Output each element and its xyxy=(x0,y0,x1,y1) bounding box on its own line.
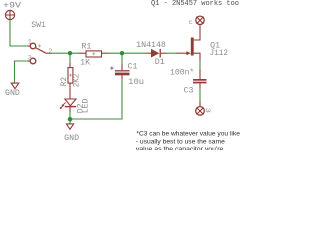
SW1 pin 2 stub xyxy=(46,52,52,54)
D2 cathode bar xyxy=(65,106,77,108)
svg-text:10u: 10u xyxy=(128,78,144,87)
svg-text:1K: 1K xyxy=(80,59,90,68)
junction node LED/C1/GND xyxy=(68,117,73,122)
svg-text:value as the capacitor you're: value as the capacitor you're xyxy=(136,146,224,150)
svg-text:R1: R1 xyxy=(81,42,91,51)
D1 anode stub xyxy=(146,52,151,54)
power supply symbol +9V xyxy=(5,10,14,19)
wire switch pin 2 to R1 xyxy=(52,52,79,54)
R2 origin cross xyxy=(69,74,72,77)
svg-text:3: 3 xyxy=(28,54,32,62)
svg-text:J112: J112 xyxy=(210,49,229,58)
C3 top plate xyxy=(193,79,207,81)
R1 body xyxy=(86,51,102,57)
C1 bottom plate xyxy=(115,73,130,76)
diode D1 1N4148 xyxy=(136,41,166,67)
svg-text:R2: R2 xyxy=(60,77,69,86)
wire C1 bottom to LED junction xyxy=(70,79,122,119)
wire +9V to switch pin 1 xyxy=(10,19,27,46)
wire C3 to connector pin 3 xyxy=(199,89,201,101)
R2 bottom pin stub to LED xyxy=(69,83,71,99)
C3 bottom pin stub xyxy=(199,83,201,88)
SW1 lever xyxy=(35,48,46,54)
Q1 channel bar xyxy=(191,38,194,56)
svg-text:100n*: 100n* xyxy=(170,68,194,78)
svg-text:LED: LED xyxy=(82,98,91,113)
wire R1 to D1 xyxy=(109,52,147,54)
svg-text:C1: C1 xyxy=(128,62,138,71)
SW1 pin 1 stub xyxy=(27,45,30,47)
svg-text:+9V: +9V xyxy=(3,2,21,11)
LED D2 xyxy=(60,98,91,113)
svg-text:*C3 can be whatever value you: *C3 can be whatever value you like xyxy=(136,131,240,138)
connector pin (drain output) xyxy=(196,16,204,24)
wire Q1 source to C3 xyxy=(199,61,201,69)
D2 cathode stub xyxy=(69,107,71,112)
Q1 gate line xyxy=(177,52,188,54)
R2 body xyxy=(68,68,73,84)
svg-text:3: 3 xyxy=(203,108,211,113)
junction node at R2 branch xyxy=(68,51,72,55)
C1 plus marker xyxy=(110,66,113,69)
SW1 pin 3 stub xyxy=(27,60,30,62)
svg-text:2K2: 2K2 xyxy=(73,74,82,88)
capacitor C3 100n xyxy=(170,68,207,96)
SW1 origin cross xyxy=(38,44,41,47)
svg-text:1N4148: 1N4148 xyxy=(136,41,166,50)
D2 emission arrow 1 xyxy=(62,102,65,105)
wire D1 to Q1 gate xyxy=(166,52,177,54)
connector pin 3 (sleeve) xyxy=(196,101,205,115)
resistor R1 xyxy=(79,42,109,67)
R1 right pin stub xyxy=(102,52,109,54)
C3 top pin stub xyxy=(199,69,201,79)
Q1 drain connection xyxy=(194,25,200,41)
R1 left pin stub xyxy=(79,52,86,54)
wire LED to ground junction xyxy=(69,113,71,120)
wire junction to GND2 xyxy=(69,119,71,124)
resistor R2 2K2 xyxy=(60,53,82,99)
Q1 gate arrowhead xyxy=(186,51,190,55)
wire switch pin 3 to ground xyxy=(15,61,28,83)
D2 triangle xyxy=(65,99,76,106)
svg-text:C3: C3 xyxy=(184,87,194,96)
C1 top pin stub xyxy=(121,64,123,70)
capacitor C1 10u polarized xyxy=(110,62,144,87)
D1 cathode bar xyxy=(159,49,161,58)
svg-text:GND: GND xyxy=(64,134,79,143)
transistor Q1 J112 JFET xyxy=(177,25,229,61)
svg-text:1: 1 xyxy=(28,39,32,47)
SW1 pin 1 contact circle xyxy=(30,43,36,49)
ground GND2 xyxy=(66,124,73,129)
svg-text:SW1: SW1 xyxy=(31,21,46,30)
D2 emission arrow 2 xyxy=(61,105,64,108)
wire junction to C1 xyxy=(121,53,123,64)
C1 top plate xyxy=(115,70,130,72)
svg-text:GND: GND xyxy=(5,89,20,98)
svg-text:2: 2 xyxy=(48,48,52,56)
svg-text:- usually best to use the same: - usually best to use the same xyxy=(136,139,226,146)
svg-text:Q1 - 2N5457 works too: Q1 - 2N5457 works too xyxy=(151,0,239,8)
R2 top wire from junction xyxy=(69,53,71,63)
svg-text:c: c xyxy=(188,19,192,27)
C3 bottom plate xyxy=(193,82,207,84)
switch SW1 xyxy=(27,21,52,64)
C1 bottom pin stub xyxy=(121,75,123,79)
SW1 pin 3 contact circle xyxy=(30,58,36,64)
ground GND1 xyxy=(11,83,19,89)
Q1 source connection xyxy=(194,53,200,60)
junction node at C1 branch xyxy=(120,51,124,55)
R1 origin cross xyxy=(92,52,95,55)
D1 triangle xyxy=(151,49,159,58)
D1 cathode stub xyxy=(161,52,166,54)
svg-text:D1: D1 xyxy=(155,58,165,67)
R2 top pin stub xyxy=(69,63,71,68)
